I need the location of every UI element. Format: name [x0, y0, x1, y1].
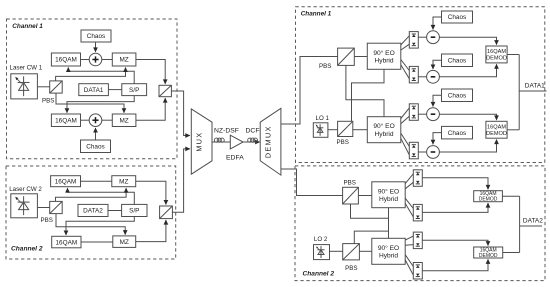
wire Chaos 4 to subtractor 4 [433, 133, 442, 145]
wire signal PBS cross-feed to lower hybrid (ch2) [351, 204, 389, 238]
svg-text:Chaos: Chaos [87, 33, 105, 40]
wire Chaos 1 to subtractor 1 [433, 17, 442, 29]
block 16QAM DEMOD 2 (ch2) [474, 247, 503, 259]
adder circle plus (ch1 tx lower) [89, 114, 102, 127]
svg-text:Laser CW 1: Laser CW 1 [10, 65, 43, 72]
subtractor circle minus 3 (ch1) [427, 108, 440, 121]
wire LO PBS cross-feed to upper hybrid (ch1) [352, 69, 385, 121]
block MZ modulator (ch2 tx upper) [112, 176, 136, 187]
wire detector 1 to subtractor 1 [418, 36, 426, 38]
svg-text:DEMOD: DEMOD [479, 253, 498, 259]
laser CW 2 box with laser-diode symbol [11, 194, 38, 218]
svg-text:Channel 1: Channel 1 [301, 11, 332, 18]
wire detector 3 to subtractor 3 [418, 113, 426, 115]
svg-text:Chaos: Chaos [448, 14, 466, 21]
subtractor circle minus 4 (ch1) [427, 146, 440, 159]
block 16QAM DEMOD 2 (ch1) [486, 121, 507, 138]
block Chaos (ch1 tx lower) [81, 140, 111, 153]
wire hybrid out 1 to detector 1 (ch2) [405, 174, 413, 184]
balanced photodetector 4 (ch1) [409, 142, 418, 159]
wire S/P lower output to 16QAM (ch2) [66, 217, 134, 236]
wire DEMOD 1 output (ch2) [502, 195, 519, 197]
wire Chaos 2 to subtractor 2 [433, 60, 442, 69]
PBS (ch2 rx lower) [343, 244, 360, 260]
svg-text:PBS: PBS [41, 217, 53, 224]
svg-text:90° EO: 90° EO [378, 187, 399, 195]
wire PBS upper output to MZ (ch2) [56, 188, 127, 201]
wire 16QAM lower to MZ lower (ch2) [81, 241, 113, 243]
svg-text:DATA2: DATA2 [523, 218, 543, 225]
svg-text:16QAM: 16QAM [487, 49, 506, 55]
fiber coil NZ-DSF [214, 138, 224, 142]
block 16QAM (ch2 tx upper) [51, 176, 81, 187]
svg-text:PBS: PBS [42, 98, 54, 105]
wire DATA2 to S/P [108, 210, 122, 212]
svg-text:DEMUX: DEMUX [264, 125, 273, 158]
wire S/P upper output to 16QAM (ch1) [68, 68, 134, 84]
svg-text:DEMOD: DEMOD [486, 56, 507, 62]
svg-text:EDFA: EDFA [226, 155, 244, 162]
block 16QAM DEMOD 1 (ch2) [474, 191, 503, 203]
PBC polarization combiner (ch1 tx) [159, 85, 171, 96]
MUX wavelength multiplexer [191, 109, 212, 174]
wire MZ lower to PBC bottom (ch2) [136, 220, 166, 242]
wire subtractor 4 to 16QAM DEMOD 2 bottom [439, 140, 496, 152]
svg-text:Chaos: Chaos [448, 93, 466, 100]
svg-text:S/P: S/P [129, 87, 139, 94]
svg-text:PBS: PBS [337, 139, 349, 146]
block Chaos (ch1 tx upper) [81, 30, 111, 42]
block DATA2 [78, 204, 108, 216]
adder circle plus (ch1 tx upper) [89, 53, 102, 66]
svg-text:90° EO: 90° EO [373, 122, 394, 130]
wire hybrid out 2 to detector 1 (ch1) [401, 44, 410, 50]
wire PBS to 90 EO hybrid (ch1 lower) [353, 129, 368, 131]
svg-text:Laser CW 2: Laser CW 2 [9, 186, 42, 193]
wire PBS lower output to MZ (ch1) [56, 93, 124, 113]
svg-text:LO 1: LO 1 [316, 115, 330, 122]
svg-text:NZ-DSF: NZ-DSF [214, 127, 239, 134]
wire Chaos 3 to subtractor 3 [433, 95, 442, 106]
block 16QAM (ch2 tx lower) [52, 236, 81, 248]
balanced photodetector 3 (ch2) [413, 232, 422, 249]
laser CW 1 box with laser-diode symbol [11, 74, 38, 99]
svg-text:16QAM: 16QAM [487, 125, 506, 131]
block S/P converter (ch2 tx) [122, 204, 147, 216]
wire PBS upper output to MZ (ch1) [56, 68, 126, 81]
block 16QAM (ch1 tx upper) [51, 53, 80, 66]
wire S/P upper output to 16QAM (ch2) [68, 188, 135, 204]
block 90deg EO Hybrid (ch1 rx upper) [367, 43, 401, 69]
svg-text:90° EO: 90° EO [378, 244, 399, 252]
svg-text:DEMOD: DEMOD [486, 131, 507, 137]
wire hybrid out 3 to detector 4 (ch2) [405, 255, 413, 267]
svg-text:DATA2: DATA2 [83, 208, 103, 215]
wire Chaos to adder (ch1 tx upper) [95, 42, 97, 52]
balanced photodetector 1 (ch2) [413, 170, 422, 187]
wire MZ upper to PBC top (ch1) [136, 60, 165, 84]
wire subtractor 3 to 16QAM DEMOD 2 top [439, 114, 496, 120]
svg-text:Chaos: Chaos [448, 58, 466, 65]
wire PBS lower output to MZ (ch2) [56, 214, 125, 235]
wire subtractor 2 to 16QAM DEMOD 1 bottom [439, 64, 496, 77]
balanced photodetector 2 (ch1) [409, 66, 418, 83]
wire detector 3 to DEMOD 2 top (ch2) [422, 240, 488, 245]
svg-text:Hybrid: Hybrid [379, 196, 398, 203]
svg-text:16QAM: 16QAM [55, 118, 77, 125]
PBS (ch1 rx lower) [338, 121, 353, 136]
wire PBS to 90 EO hybrid (ch2 lower) [359, 250, 371, 252]
svg-text:MUX: MUX [195, 131, 204, 151]
wire DATA1 output stub [519, 90, 546, 92]
svg-text:DEMOD: DEMOD [479, 197, 498, 203]
channel 1 transmitter dashed box [7, 19, 178, 159]
svg-text:16QAM: 16QAM [55, 57, 77, 64]
wire DEMOD 1 output (ch1) [507, 54, 519, 56]
wire adder to MZ (ch1 tx lower) [102, 119, 113, 121]
wire laser CW1 to PBS [37, 86, 49, 88]
svg-text:Chaos: Chaos [448, 130, 466, 137]
block MZ modulator (ch2 tx lower) [113, 236, 136, 248]
wire LO PBS cross-feed to upper hybrid (ch2) [354, 208, 388, 244]
wire detector 4 to DEMOD 2 bottom (ch2) [422, 259, 488, 270]
wire hybrid out 2 to detector 3 (ch1) [401, 116, 410, 124]
svg-text:PBS: PBS [319, 63, 331, 70]
wire 16QAM upper to MZ upper (ch2) [81, 180, 112, 182]
wire PBS to 90 EO hybrid (ch2 upper) [358, 195, 371, 197]
balanced photodetector 4 (ch2) [413, 263, 422, 280]
block MZ modulator (ch1 tx lower) [112, 114, 136, 127]
wire hybrid out 1 to detector 1 (ch1) [401, 36, 410, 45]
svg-text:DATA1: DATA1 [84, 87, 104, 94]
wire DEMOD 2 output (ch2) [503, 252, 520, 254]
block S/P converter (ch1 tx) [122, 84, 147, 96]
channel 1 receiver dashed box [296, 7, 545, 163]
wire PBS to 90 EO hybrid (ch1 upper) [354, 56, 367, 58]
svg-text:16QAM: 16QAM [55, 178, 77, 185]
wire hybrid out 2 to detector 1 (ch2) [405, 182, 413, 189]
wire hybrid out 3 to detector 4 (ch1) [401, 133, 410, 146]
balanced photodetector 1 (ch1) [409, 32, 418, 48]
svg-text:Hybrid: Hybrid [375, 57, 394, 64]
wire DEMUX lower output to ch2 receiver PBS [281, 169, 343, 196]
block 16QAM DEMOD 1 (ch1) [486, 46, 507, 63]
block 90deg EO Hybrid (ch2 rx upper) [372, 182, 405, 208]
svg-text:S/P: S/P [129, 208, 139, 215]
EDFA amplifier triangle [230, 135, 243, 149]
wire MUX output fiber axis [212, 141, 230, 143]
wire hybrid out 4 to detector 2 (ch2) [405, 203, 413, 217]
block MZ modulator (ch1 tx upper) [112, 53, 136, 66]
svg-text:DATA1: DATA1 [525, 83, 545, 90]
balanced photodetector 3 (ch1) [409, 104, 418, 121]
wire detector 4 to subtractor 4 [418, 151, 426, 153]
DEMUX wavelength demultiplexer [260, 108, 281, 175]
wire LO2 to PBS (ch2 rx lower) [330, 250, 343, 252]
wire hybrid out 4 to detector 4 (ch1) [401, 138, 410, 155]
wire LO1 to PBS (ch1 rx lower) [328, 129, 338, 131]
block DATA1 [79, 84, 109, 96]
wire MZ lower to PBC bottom (ch1) [136, 98, 165, 120]
wire S/P lower output to 16QAM (ch1) [67, 96, 134, 113]
block Chaos (ch1 rx 3) [442, 89, 473, 102]
wire DATA1 bus vertical [518, 55, 520, 130]
wire detector 2 to subtractor 2 [418, 76, 426, 78]
LO 1 local oscillator box [313, 123, 328, 138]
wire Chaos to adder (ch1 tx lower) [95, 128, 97, 140]
block 16QAM (ch1 tx lower) [51, 114, 80, 127]
wire hybrid out 3 to detector 2 (ch2) [405, 198, 413, 208]
block Chaos (ch1 rx 1) [442, 11, 473, 23]
svg-text:MZ: MZ [119, 118, 128, 125]
svg-text:DCF: DCF [246, 127, 260, 134]
block Chaos (ch1 rx 2) [442, 54, 473, 67]
block 90deg EO Hybrid (ch1 rx lower) [367, 117, 401, 143]
wire detector 2 to DEMOD 1 bottom (ch2) [422, 203, 488, 212]
wire DEMOD 2 output (ch1) [507, 129, 519, 131]
svg-text:MZ: MZ [119, 57, 128, 64]
wire subtractor 1 to 16QAM DEMOD 1 top [439, 37, 496, 44]
svg-text:Channel 2: Channel 2 [11, 246, 43, 253]
svg-text:MZ: MZ [120, 239, 129, 246]
PBS (ch1 rx upper) [338, 48, 355, 65]
PBS (ch2 rx upper) [343, 187, 359, 204]
block 90deg EO Hybrid (ch2 rx lower) [372, 238, 405, 264]
wire hybrid out 4 to detector 2 (ch1) [401, 65, 410, 79]
block Chaos (ch1 rx 4) [442, 126, 473, 138]
wire PBC to MUX input 2 [172, 149, 189, 212]
svg-text:Hybrid: Hybrid [375, 131, 394, 138]
PBS polarization splitter (ch2 tx) [50, 201, 63, 213]
wire MZ upper to PBC top (ch2) [136, 181, 166, 204]
wire hybrid out 1 to detector 3 (ch2) [405, 236, 413, 240]
PBS polarization splitter (ch1 tx) [50, 81, 63, 93]
svg-text:MZ: MZ [119, 178, 128, 185]
wire hybrid out 2 to detector 3 (ch2) [405, 244, 413, 247]
svg-text:Channel 2: Channel 2 [303, 271, 335, 278]
wire DATA2 bus vertical [519, 196, 521, 252]
PBC polarization combiner (ch2 tx) [160, 206, 173, 219]
wire laser CW2 to PBS [37, 207, 49, 209]
wire 16QAM to adder (ch1 tx lower) [81, 119, 90, 121]
wire DEMUX upper output to ch1 receiver PBS [281, 57, 338, 125]
fiber coil DCF [248, 138, 258, 142]
LO 2 local oscillator box [314, 245, 330, 260]
subtractor circle minus 2 (ch1) [427, 70, 440, 83]
svg-text:Channel 1: Channel 1 [12, 23, 43, 30]
wire adder to MZ (ch1 tx upper) [102, 59, 113, 61]
channel 2 receiver dashed box [295, 166, 545, 281]
wire PBC to MUX input 1 [171, 91, 189, 136]
wire detector 1 to DEMOD 1 top (ch2) [422, 178, 488, 190]
svg-text:Chaos: Chaos [86, 144, 104, 151]
wire signal PBS cross-feed to lower hybrid (ch1) [346, 65, 384, 116]
balanced photodetector 2 (ch2) [413, 204, 422, 221]
wire hybrid out 3 to detector 2 (ch1) [401, 60, 410, 71]
svg-text:90° EO: 90° EO [373, 49, 394, 57]
wire hybrid out 1 to detector 3 (ch1) [401, 108, 410, 119]
svg-text:LO 2: LO 2 [314, 236, 328, 243]
wire EDFA output fiber axis to DEMUX [243, 141, 260, 143]
svg-text:PBS: PBS [344, 179, 356, 186]
subtractor circle minus 1 (ch1) [427, 31, 440, 44]
wire hybrid out 4 to detector 4 (ch2) [405, 260, 413, 275]
svg-text:PBS: PBS [345, 265, 357, 272]
wire 16QAM to adder (ch1 tx upper) [81, 59, 90, 61]
wire DATA2 output stub [520, 225, 542, 227]
channel 2 transmitter dashed box [6, 166, 176, 259]
svg-text:16QAM: 16QAM [56, 239, 78, 246]
svg-text:Hybrid: Hybrid [379, 252, 398, 259]
wire DATA1 to S/P [108, 89, 121, 91]
